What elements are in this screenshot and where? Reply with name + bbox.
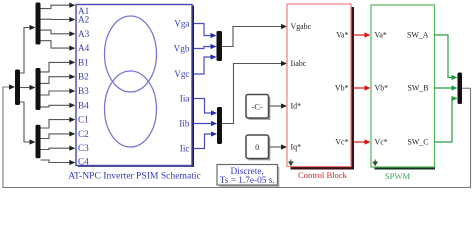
svg-text:Va*: Va* <box>375 31 387 40</box>
subsystem U2 Control Block shadow right <box>351 7 355 170</box>
subsystem U1 AT-NPC Inverter PSIM Schematic: shadow <box>191 6 194 167</box>
wire B2 <box>41 77 70 84</box>
svg-text:C2: C2 <box>78 129 89 139</box>
demux D3 (phase B) bar <box>36 68 41 110</box>
wire C2 <box>41 134 70 139</box>
wire Vc* red <box>354 141 365 143</box>
wire C1 <box>41 120 70 128</box>
svg-text:Vb*: Vb* <box>335 84 349 93</box>
wire Iia to mux M2 <box>194 99 212 114</box>
svg-text:SW_C: SW_C <box>407 138 428 147</box>
svg-text:B2: B2 <box>78 72 89 82</box>
svg-text:A3: A3 <box>78 29 90 39</box>
wire C3 <box>41 148 70 149</box>
svg-text:Iq*: Iq* <box>291 143 302 152</box>
svg-text:SPWM: SPWM <box>385 171 411 181</box>
wire Vb* red <box>354 87 365 89</box>
svg-text:Va*: Va* <box>336 31 348 40</box>
U2 output labels <box>335 31 349 147</box>
wire Va* red <box>354 34 365 36</box>
wire D1 out3 to demux D4 <box>20 102 30 142</box>
subsystem U2 Control Block body <box>287 4 351 167</box>
svg-text:Vga: Vga <box>174 18 189 28</box>
svg-text:B4: B4 <box>78 100 89 110</box>
subsystem U2 shadow bottom <box>291 166 355 170</box>
wire Vgc to mux M1 <box>194 57 212 74</box>
svg-text:SW_B: SW_B <box>407 84 428 93</box>
svg-text:C3: C3 <box>78 143 89 153</box>
wire B4 <box>41 105 70 107</box>
svg-text:Iiabc: Iiabc <box>291 59 307 68</box>
wire Vga to mux M1 <box>194 24 212 36</box>
wire 0 to Iq* <box>269 146 282 148</box>
icon ellipse lower <box>105 71 157 147</box>
mux M2 bar <box>217 107 222 144</box>
subsystem U3 SPWM body <box>371 5 435 167</box>
svg-text:Vb*: Vb* <box>375 84 389 93</box>
svg-text:Ts = 1.7e-05 s.: Ts = 1.7e-05 s. <box>220 176 275 186</box>
svg-text:C4: C4 <box>78 157 89 167</box>
wire mux M2 out to Iiabc <box>222 64 281 124</box>
icon ellipse upper <box>105 16 157 92</box>
wire SW_A green <box>435 35 453 78</box>
subsystem U1 body <box>76 5 192 166</box>
svg-text:Iib: Iib <box>179 118 190 128</box>
svg-text:Iic: Iic <box>180 143 190 153</box>
subsystem U3 shadow bottom <box>375 166 436 170</box>
U1 output port labels <box>174 18 190 153</box>
U3 input labels <box>375 31 389 147</box>
svg-text:Control Block: Control Block <box>298 170 348 180</box>
demux D2 (phase A) bar <box>36 3 41 45</box>
wire A2 <box>41 18 70 20</box>
wire A3 <box>41 30 70 34</box>
svg-text:A2: A2 <box>78 15 90 25</box>
U1 input port labels <box>78 6 90 166</box>
wire feedback loop from SW mux output around bottom to main demux input <box>3 87 471 188</box>
svg-text:0: 0 <box>255 142 259 152</box>
constant block -C- shadow <box>268 97 270 120</box>
svg-text:A4: A4 <box>78 43 90 53</box>
powergui block Discrete body <box>217 165 278 186</box>
U2 input labels <box>291 22 312 152</box>
U2 trigger glyph <box>289 160 293 166</box>
svg-text:Vc*: Vc* <box>335 138 348 147</box>
svg-text:B1: B1 <box>78 57 89 67</box>
wire Iib to mux M2 <box>194 123 212 125</box>
svg-text:SW_A: SW_A <box>407 31 429 40</box>
svg-text:AT-NPC Inverter PSIM Schematic: AT-NPC Inverter PSIM Schematic <box>68 170 201 181</box>
svg-text:Vc*: Vc* <box>375 138 388 147</box>
constant block 0 shadow <box>268 138 270 161</box>
wire A1 <box>41 5 70 8</box>
svg-text:-C-: -C- <box>252 101 264 111</box>
svg-text:Iia: Iia <box>180 93 190 103</box>
wire B3 <box>41 91 70 95</box>
svg-text:Vgb: Vgb <box>174 43 190 53</box>
powergui block Discrete shadow <box>277 167 279 187</box>
svg-text:Vgabc: Vgabc <box>291 22 312 31</box>
mux M3 bar <box>458 73 463 105</box>
wire Iic to mux M2 <box>194 134 212 149</box>
U3 trigger glyph <box>373 160 377 166</box>
wire B1 <box>41 62 70 72</box>
svg-text:B3: B3 <box>78 86 89 96</box>
demux D4 (phase C) bar <box>36 125 41 159</box>
constant block -C- body <box>246 95 269 119</box>
wire mux M1 out to Vgabc <box>222 27 281 47</box>
wire D1 out1 to demux D2 <box>20 28 30 74</box>
wire SW_C green <box>435 99 453 143</box>
wire -C- to Id* <box>269 105 282 107</box>
constant block 0 body <box>246 135 269 159</box>
svg-text:C1: C1 <box>78 115 89 125</box>
U3 output labels <box>407 31 429 147</box>
wire A4 <box>41 41 70 48</box>
subsystem U3 SPWM shadow right <box>432 8 436 170</box>
wire Vgb to mux M1 <box>194 47 212 49</box>
wire SW_B green <box>435 87 453 89</box>
demux D1 (1 to 3) main bar <box>15 70 20 106</box>
wire D1 out2 to demux D3 <box>20 87 30 89</box>
node feedback arrowhead into main demux <box>9 84 15 89</box>
svg-text:Vgc: Vgc <box>174 69 189 79</box>
svg-text:Id*: Id* <box>291 102 302 111</box>
mux M1 bar <box>217 31 223 61</box>
wire C4 <box>41 160 70 163</box>
